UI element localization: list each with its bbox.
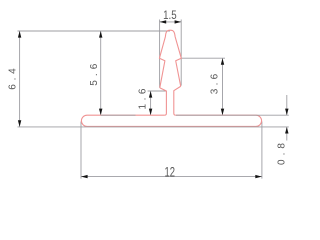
svg-text:1.5: 1.5 xyxy=(163,8,177,22)
arrow 0.8 up xyxy=(285,127,288,134)
extension line base top left segment (y=115.2) xyxy=(101,114,136,116)
arrow 5.6 bottom xyxy=(99,109,102,116)
dimension line 12 xyxy=(81,176,262,178)
arrow 1.6 top xyxy=(149,91,152,98)
dimension leader 0.8 lower xyxy=(286,127,288,141)
arrow 12 left xyxy=(81,175,88,178)
arrow 6.4 bottom xyxy=(18,120,21,127)
dimension line 3.6 xyxy=(222,58,224,115)
dimension line 5.6 xyxy=(100,31,102,115)
svg-text:6.4: 6.4 xyxy=(7,68,18,90)
extension line from spike top (y=31.3) xyxy=(18,30,171,32)
extension line left of 1.5 (x=159.6) xyxy=(159,20,161,88)
svg-text:0.8: 0.8 xyxy=(277,143,288,165)
svg-text:3.6: 3.6 xyxy=(210,73,221,94)
arrow 1.5 right xyxy=(175,20,182,23)
arrow 6.4 top xyxy=(18,31,21,38)
extension line right of 1.5 (x=181.2) xyxy=(180,20,182,86)
extension line from barb tip to 3.6 (y=58.2) xyxy=(181,57,225,59)
profile base outline (red stadium) xyxy=(81,115,261,126)
arrow 1.5 left xyxy=(160,20,167,23)
dimension line 6.4 xyxy=(19,31,21,127)
arrow 12 right xyxy=(255,175,262,178)
svg-text:1.6: 1.6 xyxy=(138,88,149,109)
dimension line 1.6 xyxy=(150,91,152,115)
extension line 12-dim right (x=261.9) xyxy=(261,122,263,179)
dimension line 1.5 xyxy=(160,21,182,23)
dimension leader 0.8 upper xyxy=(286,95,288,115)
svg-text:12: 12 xyxy=(165,163,176,179)
arrow 1.6 bottom xyxy=(149,109,152,116)
extension line base bottom (y=126.9) xyxy=(18,126,289,128)
svg-text:5.6: 5.6 xyxy=(89,63,100,85)
arrow 3.6 top xyxy=(221,58,224,65)
arrow 5.6 top xyxy=(99,31,102,38)
extension line base top right segment (y=115.2) xyxy=(176,114,289,116)
extension line 12-dim left (x=81) xyxy=(80,122,82,179)
extension line lower barb shoulder for 1.6 (y=91) xyxy=(148,90,167,92)
profile spike outline (red) xyxy=(159,30,181,115)
arrow 3.6 bottom xyxy=(221,109,224,116)
arrow 0.8 down xyxy=(285,109,288,116)
